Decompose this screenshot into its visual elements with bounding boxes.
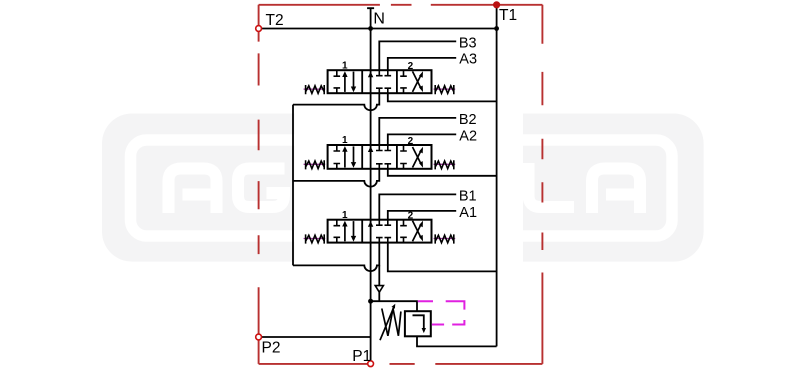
wire: T1 return vertical <box>496 8 498 347</box>
DV1 cell1 up arrow <box>344 224 346 241</box>
svg-text:A1: A1 <box>459 205 477 221</box>
DV2 cell1 up arrow <box>344 149 346 167</box>
svg-text:1: 1 <box>342 60 348 71</box>
valve block boundary (dashed red enclosure) <box>259 5 543 364</box>
wire: cone to pump junction <box>378 292 380 301</box>
wire: port A2 <box>388 134 456 145</box>
wire: relief outlet to T1 <box>417 336 497 346</box>
wire: section 1 return to T1 <box>388 243 497 272</box>
svg-text:A3: A3 <box>459 52 477 68</box>
DV1 cell1 blocked ports <box>334 220 341 243</box>
directional valve DV3 (top section) <box>304 60 456 94</box>
DV3 cell3 blocked ports <box>400 70 407 93</box>
wire: open-center N line vertical <box>370 29 372 302</box>
DV1 cell3 blocked ports <box>400 220 407 243</box>
relief valve RV body <box>405 311 431 336</box>
DV3 cell1 down arrow <box>353 72 355 90</box>
directional valve DV2 (middle section) <box>304 135 456 169</box>
DV2 body <box>328 145 432 169</box>
svg-text:P2: P2 <box>262 339 281 356</box>
wire: port B2 <box>379 118 456 145</box>
DV3 cell3 crossed arrows <box>413 75 422 92</box>
schematic backdrop <box>295 0 524 370</box>
wire: port A3 <box>388 58 456 70</box>
DV3 cell1 up arrow <box>344 74 346 92</box>
DV2 cell3 blocked ports <box>400 145 407 169</box>
wire: section 3 feed line with jump over N <box>293 93 379 110</box>
wire: parallel feed gallery vertical <box>292 105 294 266</box>
svg-text:1: 1 <box>342 210 348 221</box>
port T1 marker <box>494 2 500 8</box>
DV1 right spring <box>434 238 456 240</box>
wire: section 2 feed line with jump over N <box>293 169 379 187</box>
directional valve DV1 (bottom section) <box>304 210 456 244</box>
DV3 left spring <box>304 88 326 90</box>
DV3 body <box>328 70 432 93</box>
relief valve adjustable spring <box>382 309 401 336</box>
wire: section 2 return to T1 <box>388 169 497 176</box>
wire: port B3 <box>379 41 456 70</box>
DV2 right spring <box>434 163 456 165</box>
relief valve flow arrow <box>413 315 424 329</box>
wire: feed drop to pump junction <box>378 265 380 285</box>
DV2 left spring <box>304 163 326 165</box>
DV2 cell1 blocked ports <box>334 145 341 169</box>
DV1 cell1 down arrow <box>353 221 355 238</box>
relief valve adjustment arrow <box>380 307 394 340</box>
DV2 cell2 open center arrow <box>368 146 373 152</box>
node N junction <box>368 26 373 31</box>
svg-text:P1: P1 <box>352 348 371 365</box>
svg-text:T2: T2 <box>266 12 284 29</box>
check valve flow cone <box>375 286 383 293</box>
svg-text:A2: A2 <box>459 128 477 144</box>
wire: tank line T2 to T1 <box>259 28 497 30</box>
wire: port A1 <box>388 211 456 220</box>
DV3 cell1 blocked ports <box>334 70 341 93</box>
DV2 cell1 down arrow <box>353 146 355 164</box>
svg-text:2: 2 <box>408 61 414 72</box>
svg-text:T1: T1 <box>499 7 517 24</box>
DV1 cell2 open center arrow <box>368 221 373 227</box>
wire: relief inlet <box>371 301 417 311</box>
port T2 marker <box>256 26 262 32</box>
wire: section 3 return to T1 <box>388 93 497 101</box>
DV1 left spring <box>304 238 326 240</box>
watermark AGROLA block <box>102 114 704 262</box>
port P1 marker <box>368 361 374 367</box>
svg-text:B1: B1 <box>459 188 477 204</box>
DV3 cell2 open center arrow <box>368 72 373 78</box>
relief valve pilot line <box>418 301 465 324</box>
svg-text:N: N <box>373 11 385 28</box>
svg-text:B3: B3 <box>459 35 477 51</box>
wire: P1 riser to pump port <box>370 301 372 360</box>
wire: section 1 feed line with jump over N <box>293 243 379 271</box>
wire: N stub (plugged) <box>367 8 374 28</box>
DV2 cell2 blocked ports <box>376 145 391 169</box>
DV3 cell2 blocked ports <box>376 70 391 93</box>
svg-text:B2: B2 <box>459 112 477 128</box>
DV3 right spring <box>434 88 456 90</box>
DV1 cell2 blocked ports <box>376 220 391 243</box>
DV2 cell3 crossed arrows <box>413 150 422 167</box>
port P2 marker <box>256 334 262 340</box>
wire: port B1 <box>379 194 456 219</box>
node P junction <box>368 299 373 304</box>
svg-text:2: 2 <box>408 136 414 147</box>
DV1 cell3 crossed arrows <box>413 224 422 241</box>
node T1 junction <box>494 26 499 31</box>
svg-text:2: 2 <box>408 211 414 222</box>
wire: P2 line <box>262 336 371 338</box>
DV1 body <box>328 220 432 243</box>
svg-text:1: 1 <box>342 135 348 146</box>
